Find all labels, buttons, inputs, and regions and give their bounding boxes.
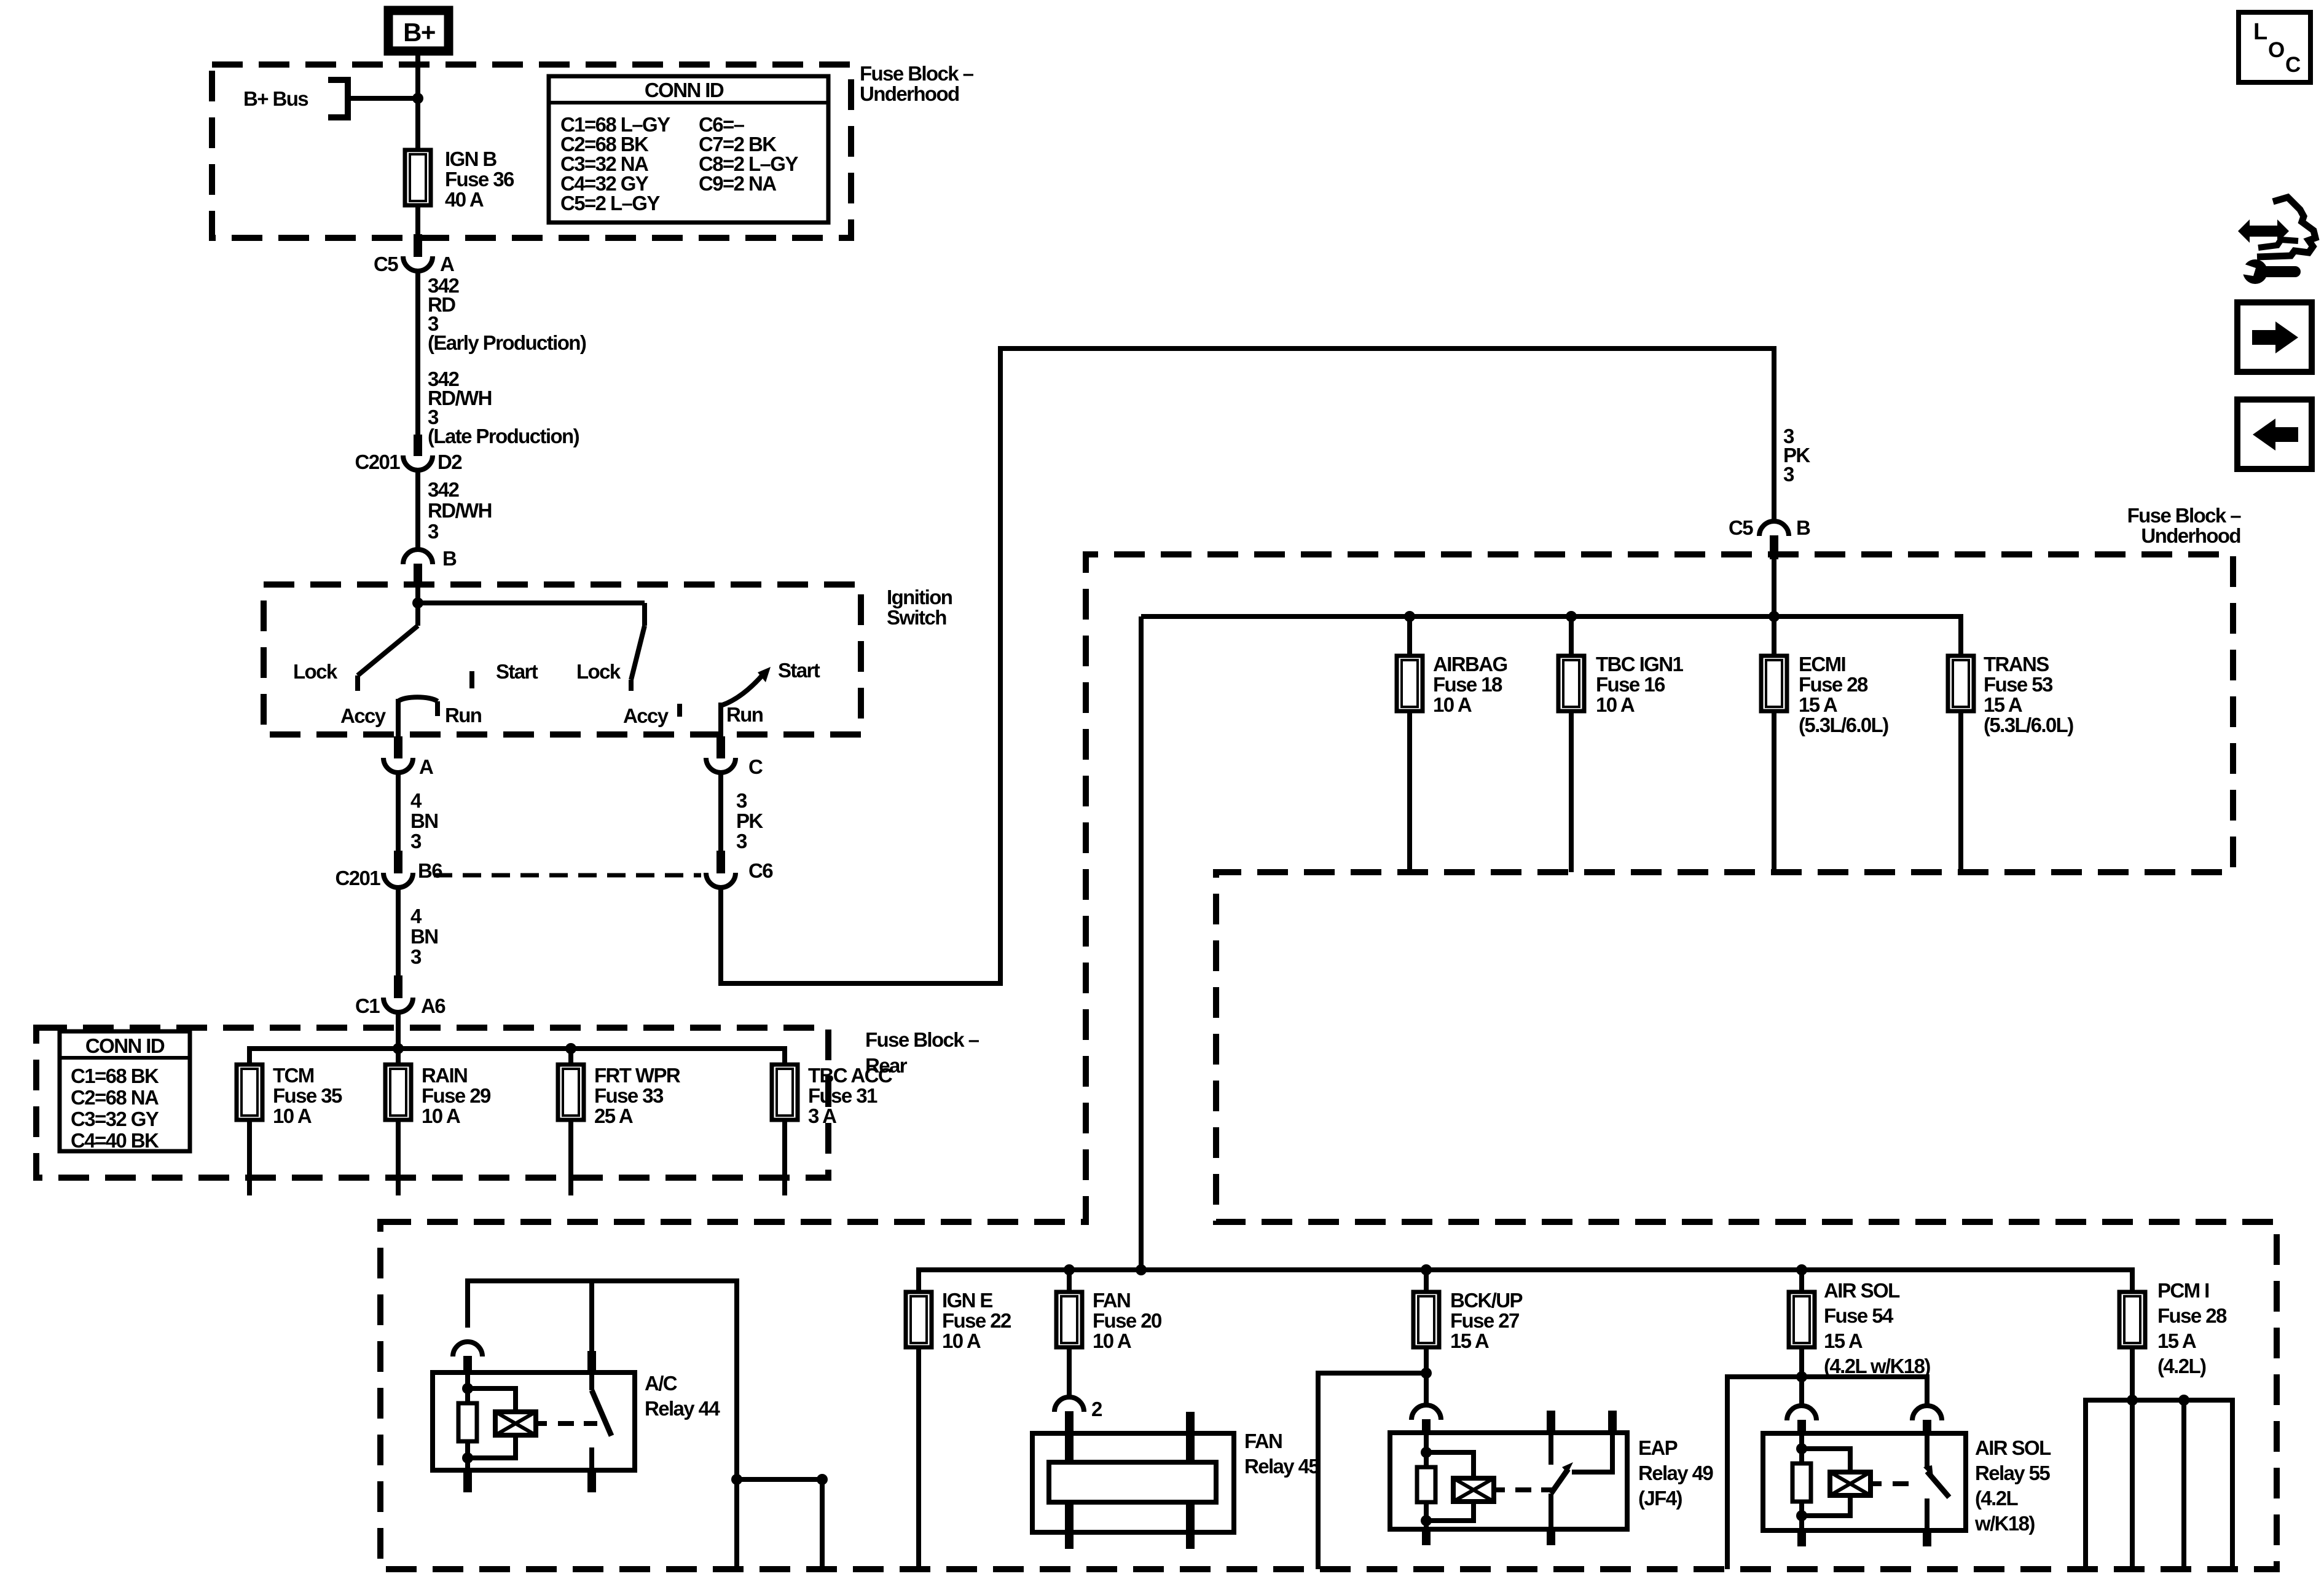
svg-text:IGN B: IGN B xyxy=(445,148,497,170)
connector C1 pin A6 xyxy=(394,975,402,998)
connector pin A ignition output 1 xyxy=(394,736,402,758)
connector pin A/C relay coil xyxy=(453,1342,482,1357)
wire 3 PK 3 from C xyxy=(718,773,723,851)
EAP relay coil circuit xyxy=(1424,1433,1429,1467)
wire IGN E output xyxy=(916,1347,921,1569)
switch pole 1 blade (Lock position) xyxy=(358,626,418,675)
contact Start pole 1 xyxy=(469,671,474,688)
svg-text:3: 3 xyxy=(410,830,422,853)
svg-text:Fuse 36: Fuse 36 xyxy=(445,168,514,191)
AIR SOL relay linkage xyxy=(1871,1481,1882,1486)
wire 342 RD to C201 xyxy=(415,271,420,435)
svg-text:4: 4 xyxy=(410,789,422,812)
svg-text:TCM: TCM xyxy=(273,1064,314,1087)
svg-text:C: C xyxy=(2285,53,2301,77)
svg-text:Accy: Accy xyxy=(340,704,387,727)
svg-text:BCK/UP: BCK/UP xyxy=(1450,1289,1522,1312)
fuse BCK/UP Fuse 27 15 A xyxy=(1424,1270,1429,1292)
svg-text:Run: Run xyxy=(726,703,763,726)
svg-text:C: C xyxy=(748,755,763,778)
svg-text:FRT WPR: FRT WPR xyxy=(594,1064,681,1087)
fuse IGN E Fuse 22 10 A xyxy=(906,1292,932,1347)
svg-text:Fuse 33: Fuse 33 xyxy=(594,1084,664,1107)
svg-text:3: 3 xyxy=(410,945,422,968)
wire A/C area drop right xyxy=(731,1474,742,1485)
wire BCK/UP branch to connector xyxy=(1318,1373,1426,1569)
svg-text:B: B xyxy=(442,547,457,570)
connector C201 pin B6 xyxy=(394,851,402,873)
fuse ECMI Fuse 28 15 A xyxy=(1772,616,1776,656)
connector C201 pin C6 xyxy=(716,851,725,873)
svg-text:C5: C5 xyxy=(1729,516,1753,539)
connector C5 pin B xyxy=(1759,521,1789,536)
arrow next icon xyxy=(2237,302,2312,372)
connector pin AIR SOL relay switch xyxy=(1912,1406,1942,1420)
wire A/C relay switch feed xyxy=(589,1281,594,1352)
wire BCK/UP output xyxy=(1424,1347,1429,1406)
svg-text:15 A: 15 A xyxy=(1450,1329,1489,1352)
fuse IGN B Fuse 36 40 A xyxy=(405,150,431,205)
svg-text:RD/WH: RD/WH xyxy=(428,499,492,522)
ignition switch dashed box xyxy=(264,585,861,734)
svg-text:L: L xyxy=(2253,19,2267,45)
svg-text:AIR SOL: AIR SOL xyxy=(1975,1436,2051,1459)
connector C201 pin D2 xyxy=(414,435,422,456)
LOC icon box xyxy=(2239,12,2310,82)
svg-text:3: 3 xyxy=(1783,463,1794,486)
svg-text:Relay 55: Relay 55 xyxy=(1975,1462,2050,1484)
wire bus feed down to relay bus xyxy=(1139,616,1144,1270)
wire pole 2 output xyxy=(718,703,723,738)
svg-text:3 A: 3 A xyxy=(808,1105,836,1127)
svg-text:10 A: 10 A xyxy=(942,1329,981,1352)
wire PCM I output splice xyxy=(2130,1347,2135,1400)
switch pole 2 blade (Lock position) xyxy=(631,626,645,680)
svg-text:BN: BN xyxy=(410,925,438,948)
connector pin EAP relay coil xyxy=(1411,1405,1441,1420)
connector pin B ignition switch xyxy=(403,549,433,564)
wire C5 B to bus xyxy=(1772,559,1776,616)
underhood ign1 bus xyxy=(1141,616,1961,656)
svg-text:Accy: Accy xyxy=(623,704,669,727)
svg-text:15 A: 15 A xyxy=(1824,1329,1863,1352)
fuse TBC IGN1 Fuse 16 10 A xyxy=(1569,616,1574,656)
arrow previous icon xyxy=(2237,400,2312,469)
wire FAN fuse to relay xyxy=(1067,1347,1072,1398)
svg-text:C1: C1 xyxy=(355,994,380,1017)
svg-text:IGN E: IGN E xyxy=(942,1289,992,1312)
svg-text:15 A: 15 A xyxy=(1984,693,2022,716)
switch pole 2 drop xyxy=(642,603,647,626)
fuse AIR SOL Fuse 54 15 A xyxy=(1799,1270,1804,1292)
svg-text:AIRBAG: AIRBAG xyxy=(1433,653,1507,675)
rear fuse bus xyxy=(249,1049,785,1065)
svg-text:Fuse 22: Fuse 22 xyxy=(942,1309,1011,1332)
svg-text:Run: Run xyxy=(445,704,482,726)
contact Accy pole 2 xyxy=(677,704,682,717)
wire 342 RD/WH to ignition switch xyxy=(415,470,420,550)
svg-text:Underhood: Underhood xyxy=(2141,524,2240,547)
svg-text:15 A: 15 A xyxy=(1799,693,1837,716)
svg-text:Fuse 35: Fuse 35 xyxy=(273,1084,342,1107)
A/C relay coil circuit xyxy=(465,1372,470,1403)
svg-text:(JF4): (JF4) xyxy=(1638,1487,1682,1510)
svg-text:Fuse 16: Fuse 16 xyxy=(1596,673,1665,696)
svg-text:2: 2 xyxy=(1091,1398,1102,1420)
svg-text:FAN: FAN xyxy=(1244,1430,1282,1452)
svg-text:Relay 45: Relay 45 xyxy=(1244,1455,1319,1478)
AIR SOL relay switch xyxy=(1925,1433,1929,1469)
wire 4 BN 3 to C1 xyxy=(396,888,401,976)
connector pin AIR SOL relay coil xyxy=(1787,1406,1816,1420)
connector pin 2 FAN relay xyxy=(1054,1397,1084,1412)
svg-text:3: 3 xyxy=(428,520,439,543)
svg-text:D2: D2 xyxy=(438,451,462,473)
svg-text:A: A xyxy=(419,755,433,778)
connector pin C ignition output 2 xyxy=(716,736,725,758)
A/C relay switch xyxy=(589,1372,594,1390)
fuse RAIN Fuse 29 10 A xyxy=(396,1049,401,1065)
svg-text:(4.2L): (4.2L) xyxy=(2157,1355,2206,1377)
fuse TCM Fuse 35 10 A xyxy=(237,1065,262,1120)
svg-text:Start: Start xyxy=(778,659,820,682)
svg-text:10 A: 10 A xyxy=(1596,693,1635,716)
svg-text:C5: C5 xyxy=(374,253,398,275)
CONN ID table (underhood) xyxy=(549,76,828,222)
svg-text:C9=2 NA: C9=2 NA xyxy=(699,172,776,195)
svg-text:(Late Production): (Late Production) xyxy=(428,425,579,447)
svg-text:C6: C6 xyxy=(748,859,773,882)
wire AIR SOL output xyxy=(1799,1347,1804,1406)
svg-text:TRANS: TRANS xyxy=(1984,653,2049,675)
fuse FRT WPR Fuse 33 25 A xyxy=(568,1049,573,1065)
svg-text:(4.2L: (4.2L xyxy=(1975,1487,2018,1510)
svg-text:(5.3L/6.0L): (5.3L/6.0L) xyxy=(1799,714,1888,736)
svg-text:Ignition: Ignition xyxy=(887,586,952,608)
svg-text:10 A: 10 A xyxy=(1433,693,1472,716)
relay feed bus xyxy=(919,1270,2132,1292)
svg-text:Fuse 27: Fuse 27 xyxy=(1450,1309,1519,1332)
svg-text:BN: BN xyxy=(410,809,438,832)
wire 4 BN 3 from A xyxy=(396,773,401,851)
FAN relay pins xyxy=(1065,1412,1074,1462)
wire A/C relay feed xyxy=(468,1281,737,1569)
svg-text:A/C: A/C xyxy=(645,1372,677,1395)
contact Run pole 1 xyxy=(435,701,440,716)
svg-text:B+ Bus: B+ Bus xyxy=(243,87,308,110)
svg-text:C4=40 BK: C4=40 BK xyxy=(71,1129,159,1152)
svg-text:Fuse 31: Fuse 31 xyxy=(808,1084,877,1107)
svg-text:TBC IGN1: TBC IGN1 xyxy=(1596,653,1683,675)
FAN relay inner bar xyxy=(1049,1462,1216,1502)
relay A/C Relay 44 box xyxy=(433,1372,635,1470)
accy-run pickup arc pole 1 xyxy=(398,697,438,701)
svg-text:C5=2 L–GY: C5=2 L–GY xyxy=(560,192,660,215)
relay FAN Relay 45 box xyxy=(1032,1433,1234,1532)
wire ignition switch input bus xyxy=(415,583,420,626)
svg-text:C201: C201 xyxy=(336,867,381,889)
wire pole 2 output to underhood B xyxy=(721,348,1774,983)
svg-text:FAN: FAN xyxy=(1093,1289,1130,1312)
svg-text:PK: PK xyxy=(736,809,763,832)
wire AIR SOL branch xyxy=(1727,1377,1927,1569)
svg-text:C201: C201 xyxy=(355,451,401,473)
fuse AIRBAG Fuse 18 10 A xyxy=(1407,616,1412,656)
svg-text:10 A: 10 A xyxy=(1093,1329,1131,1352)
svg-text:Fuse Block –: Fuse Block – xyxy=(2127,504,2242,527)
svg-text:PCM I: PCM I xyxy=(2157,1279,2209,1302)
svg-text:Relay 49: Relay 49 xyxy=(1638,1462,1713,1484)
svg-text:CONN ID: CONN ID xyxy=(645,79,724,101)
wire into rear fuse block xyxy=(396,1012,401,1049)
connector gang dashed line C201 xyxy=(434,873,701,878)
svg-text:(4.2L w/K18): (4.2L w/K18) xyxy=(1824,1355,1930,1377)
svg-text:C2=68 NA: C2=68 NA xyxy=(71,1086,159,1109)
svg-text:RAIN: RAIN xyxy=(422,1064,467,1087)
svg-text:Fuse 54: Fuse 54 xyxy=(1824,1304,1894,1327)
svg-text:Fuse Block –: Fuse Block – xyxy=(865,1028,979,1051)
svg-text:Start: Start xyxy=(496,660,538,683)
svg-text:25 A: 25 A xyxy=(594,1105,633,1127)
svg-text:O: O xyxy=(2268,38,2284,62)
svg-text:Fuse Block –: Fuse Block – xyxy=(860,62,974,85)
svg-text:B+: B+ xyxy=(403,18,435,47)
wire B+ feed down into fuse block xyxy=(415,52,420,150)
fuse block underhood top-left dashed box xyxy=(212,65,851,238)
svg-text:EAP: EAP xyxy=(1638,1436,1678,1459)
svg-text:10 A: 10 A xyxy=(273,1105,312,1127)
svg-text:w/K18): w/K18) xyxy=(1974,1512,2035,1535)
fuse TBC ACC Fuse 31 3 A xyxy=(772,1065,798,1120)
svg-text:Switch: Switch xyxy=(887,606,946,629)
fuse FAN Fuse 20 10 A xyxy=(1067,1270,1072,1292)
svg-text:Fuse 53: Fuse 53 xyxy=(1984,673,2053,696)
svg-text:CONN ID: CONN ID xyxy=(85,1034,165,1057)
svg-text:A6: A6 xyxy=(421,994,446,1017)
svg-text:(5.3L/6.0L): (5.3L/6.0L) xyxy=(1984,714,2073,736)
svg-text:(Early Production): (Early Production) xyxy=(428,331,586,354)
svg-text:AIR SOL: AIR SOL xyxy=(1824,1279,1900,1302)
junction B+ bus xyxy=(412,93,423,104)
svg-text:342: 342 xyxy=(428,478,460,501)
hand with double arrow and wrench icon xyxy=(2238,219,2289,243)
svg-text:Underhood: Underhood xyxy=(860,82,959,105)
svg-text:3: 3 xyxy=(736,830,747,853)
wire pole 1 output xyxy=(396,699,401,738)
svg-text:Relay 44: Relay 44 xyxy=(645,1397,720,1420)
fuse TRANS Fuse 53 15 A xyxy=(1948,656,1974,711)
svg-text:Fuse 28: Fuse 28 xyxy=(2157,1304,2227,1327)
EAP relay switch xyxy=(1547,1411,1555,1433)
svg-text:Lock: Lock xyxy=(576,660,621,683)
svg-text:Lock: Lock xyxy=(293,660,338,683)
run-start pickup arc pole 2 with arrow xyxy=(721,674,764,706)
svg-text:Fuse 28: Fuse 28 xyxy=(1799,673,1868,696)
svg-text:B6: B6 xyxy=(418,859,442,882)
svg-text:ECMI: ECMI xyxy=(1799,653,1845,675)
wire fuse 36 output xyxy=(415,205,420,236)
fuse PCM I Fuse 28 15 A xyxy=(2119,1292,2145,1347)
svg-text:Fuse 29: Fuse 29 xyxy=(422,1084,491,1107)
AIR SOL relay coil circuit xyxy=(1799,1433,1804,1463)
svg-text:Fuse 18: Fuse 18 xyxy=(1433,673,1502,696)
B+ bus bar symbol xyxy=(328,80,348,117)
wire B+ bus to main feed xyxy=(348,96,418,101)
svg-text:A: A xyxy=(440,253,454,275)
svg-text:TBC ACC: TBC ACC xyxy=(808,1064,892,1087)
connector C5 pin A xyxy=(414,234,422,257)
EAP relay linkage xyxy=(1494,1487,1505,1492)
svg-text:C1=68 BK: C1=68 BK xyxy=(71,1065,159,1087)
svg-text:3: 3 xyxy=(736,789,747,812)
A/C relay linkage xyxy=(536,1421,547,1426)
svg-text:Fuse 20: Fuse 20 xyxy=(1093,1309,1161,1332)
svg-text:40 A: 40 A xyxy=(445,188,484,211)
relay EAP Relay 49 box xyxy=(1390,1433,1627,1529)
svg-text:B: B xyxy=(1796,516,1810,539)
svg-text:15 A: 15 A xyxy=(2157,1329,2196,1352)
svg-text:4: 4 xyxy=(410,905,422,927)
B+ battery terminal xyxy=(388,10,449,51)
relay AIR SOL Relay 55 box xyxy=(1763,1433,1966,1530)
CONN ID table (rear) xyxy=(60,1031,190,1151)
svg-text:10 A: 10 A xyxy=(422,1105,460,1127)
fuse block rear dashed box xyxy=(36,1028,828,1178)
fuse block underhood main dashed outline xyxy=(380,554,2277,1569)
svg-text:C3=32 GY: C3=32 GY xyxy=(71,1108,159,1130)
